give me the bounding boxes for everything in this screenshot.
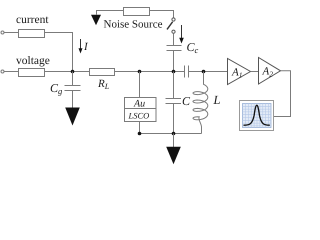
node junction voltage/current: [71, 70, 75, 74]
inductor L: [193, 72, 208, 134]
node junction Cc/main: [172, 70, 176, 74]
op-amp A1: [228, 59, 251, 85]
current arrow at Cc: [179, 25, 184, 44]
oscilloscope: [240, 101, 274, 131]
node junction RL/Au: [138, 70, 142, 74]
capacitor C: [166, 72, 182, 134]
wire: [189, 71, 228, 73]
node junction Au/bottom: [138, 132, 142, 136]
node junction C/ground: [172, 132, 176, 136]
ground noise source: [91, 15, 101, 26]
node junction cap/L: [202, 70, 206, 74]
svg-text:voltage: voltage: [16, 55, 50, 67]
svg-text:C: C: [182, 94, 191, 108]
wire bottom bus: [140, 133, 202, 135]
device Au/LSCO: [125, 98, 157, 122]
wire: [4, 32, 19, 34]
resistor RL: [90, 69, 115, 76]
switch S1: [167, 18, 175, 33]
svg-text:LSCO: LSCO: [128, 110, 150, 120]
wire output to scope: [274, 71, 291, 117]
svg-text:Au: Au: [133, 98, 145, 109]
resistor noise source: [124, 8, 150, 16]
wire: [4, 71, 19, 73]
wire: [150, 11, 174, 18]
wire main horizontal: [45, 71, 90, 73]
ground main: [166, 147, 181, 165]
resistor voltage lead: [19, 69, 45, 77]
capacitor series coupling: [185, 66, 189, 78]
wire: [115, 71, 185, 73]
ground Cg: [65, 108, 80, 126]
terminal current input: [1, 31, 4, 34]
wire Au bottom: [139, 122, 141, 134]
svg-text:current: current: [16, 14, 49, 26]
wire ground stub: [173, 134, 175, 148]
svg-text:L: L: [213, 93, 221, 107]
capacitor Cc: [167, 46, 182, 72]
wire Au top: [139, 72, 141, 98]
wire: [173, 33, 175, 45]
current arrow I: [79, 39, 83, 54]
op-amp A2: [259, 58, 281, 85]
wire: [251, 71, 259, 73]
terminal voltage input: [1, 70, 4, 73]
svg-text:Noise Source: Noise Source: [104, 19, 163, 31]
wire: [45, 33, 73, 72]
resistor current lead: [19, 30, 45, 38]
wire: [97, 11, 124, 15]
capacitor Cg: [65, 72, 81, 109]
